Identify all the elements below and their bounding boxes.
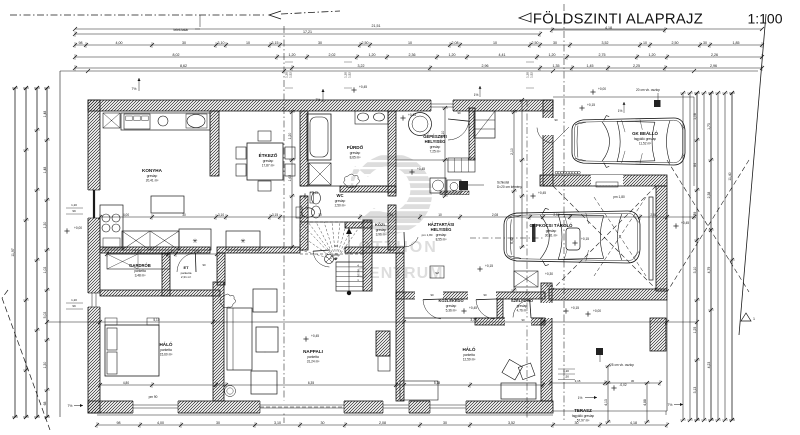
svg-text:FÖLDSZINTI ALAPRAJZ: FÖLDSZINTI ALAPRAJZ (533, 10, 703, 28)
svg-text:1,30: 1,30 (43, 362, 47, 369)
svg-text:15,60 m²: 15,60 m² (160, 353, 173, 357)
svg-text:GARDRÓB: GARDRÓB (129, 263, 151, 268)
svg-text:2,50: 2,50 (553, 213, 559, 217)
svg-text:1%: 1% (474, 93, 479, 97)
svg-text:98: 98 (117, 421, 121, 425)
svg-text:KÖZLEKEDŐ: KÖZLEKEDŐ (438, 298, 463, 303)
svg-text:FÜRDŐ: FÜRDŐ (347, 144, 364, 150)
svg-text:✳: ✳ (192, 238, 197, 245)
svg-text:7%: 7% (316, 98, 321, 102)
svg-text:SZÉLFOGÓ: SZÉLFOGÓ (511, 298, 533, 303)
svg-text:-0,02: -0,02 (619, 383, 626, 387)
svg-text:3,10: 3,10 (693, 267, 697, 274)
svg-text:3,22: 3,22 (358, 64, 365, 68)
svg-text:1,50: 1,50 (193, 250, 199, 254)
svg-text:2,10: 2,10 (441, 131, 445, 138)
svg-text:99: 99 (72, 209, 76, 213)
svg-text:4,76 m²: 4,76 m² (517, 309, 528, 313)
svg-text:2,02: 2,02 (329, 53, 336, 57)
svg-text:ET: ET (183, 265, 189, 270)
svg-text:21,51: 21,51 (372, 24, 381, 28)
svg-text:✳: ✳ (240, 238, 245, 245)
svg-text:2,08: 2,08 (492, 213, 498, 217)
svg-text:1,85: 1,85 (733, 41, 740, 45)
svg-text:+0,45: +0,45 (538, 191, 546, 195)
svg-text:4,18: 4,18 (605, 26, 612, 30)
svg-text:fagyálló greslap: fagyálló greslap (572, 414, 595, 418)
svg-text:greslap: greslap (263, 159, 274, 163)
svg-text:2,31 m²: 2,31 m² (181, 275, 191, 279)
svg-text:25 cm vb. oszlop: 25 cm vb. oszlop (610, 363, 634, 367)
svg-text:10: 10 (438, 213, 442, 217)
svg-text:1,20: 1,20 (649, 53, 656, 57)
svg-text:parketta: parketta (463, 353, 475, 357)
svg-text:pm 1,80: pm 1,80 (613, 195, 625, 199)
svg-text:KONYHA: KONYHA (142, 168, 163, 173)
svg-text:greslap: greslap (350, 151, 361, 155)
svg-text:3,15: 3,15 (272, 213, 278, 217)
svg-text:4,41: 4,41 (499, 53, 506, 57)
svg-text:1,20: 1,20 (289, 53, 296, 57)
svg-text:2,50: 2,50 (650, 213, 656, 217)
svg-text:5,02: 5,02 (43, 312, 47, 319)
svg-text:1,45: 1,45 (587, 64, 594, 68)
svg-text:30: 30 (321, 421, 325, 425)
svg-text:30: 30 (182, 213, 186, 217)
svg-text:2,10: 2,10 (510, 148, 514, 155)
svg-text:2,08: 2,08 (452, 41, 459, 45)
svg-text:greslap: greslap (546, 229, 557, 233)
svg-text:1,35: 1,35 (553, 64, 560, 68)
svg-text:4,13: 4,13 (604, 399, 608, 406)
svg-text:pm 1,80: pm 1,80 (422, 233, 433, 237)
svg-text:4,00: 4,00 (157, 421, 164, 425)
svg-text:1,20: 1,20 (71, 298, 77, 302)
svg-text:1,25: 1,25 (693, 327, 697, 334)
svg-text:3,10: 3,10 (274, 421, 281, 425)
svg-text:4,79: 4,79 (707, 267, 711, 274)
svg-text:4,80: 4,80 (123, 381, 129, 385)
svg-text:6,35: 6,35 (308, 381, 314, 385)
svg-text:7%: 7% (668, 403, 673, 407)
svg-text:30: 30 (443, 421, 447, 425)
svg-text:8,55 m²: 8,55 m² (436, 238, 447, 242)
svg-text:20 cm vb. oszlop: 20 cm vb. oszlop (636, 88, 660, 92)
svg-text:HÁLÓ: HÁLÓ (462, 345, 475, 352)
svg-text:3,48 m²: 3,48 m² (135, 274, 146, 278)
svg-text:4,18: 4,18 (630, 421, 637, 425)
svg-text:20,41 m²: 20,41 m² (146, 179, 159, 183)
svg-text:+0,45: +0,45 (359, 85, 367, 89)
svg-text:+0,45: +0,45 (545, 284, 553, 288)
svg-text:2,08: 2,08 (379, 421, 386, 425)
svg-text:30: 30 (182, 41, 186, 45)
svg-text:+0,00: +0,00 (593, 309, 601, 313)
svg-text:3,10: 3,10 (218, 41, 225, 45)
svg-text:2,50: 2,50 (672, 41, 679, 45)
svg-text:+0,45: +0,45 (417, 167, 425, 171)
svg-text:30: 30 (318, 213, 322, 217)
svg-text:pm 90: pm 90 (149, 395, 158, 399)
svg-text:3,10: 3,10 (218, 213, 224, 217)
svg-text:3,15: 3,15 (272, 41, 279, 45)
svg-text:TERASZ: TERASZ (574, 408, 592, 413)
svg-text:+0,45: +0,45 (311, 334, 319, 338)
svg-text:2,36: 2,36 (409, 53, 416, 57)
svg-text:12,59 m²: 12,59 m² (463, 358, 476, 362)
svg-text:90: 90 (334, 244, 338, 248)
svg-text:HÁLÓ: HÁLÓ (159, 340, 172, 347)
svg-text:4,23: 4,23 (707, 362, 711, 369)
svg-text:KÖZL.: KÖZL. (375, 222, 387, 227)
svg-text:1,20: 1,20 (369, 53, 376, 57)
svg-text:2,25: 2,25 (633, 64, 640, 68)
svg-text:SZ: SZ (435, 271, 439, 275)
svg-text:greslap: greslap (436, 233, 447, 237)
svg-text:2,50: 2,50 (532, 41, 539, 45)
svg-text:2,40: 2,40 (134, 250, 140, 254)
svg-text:4,00: 4,00 (123, 213, 129, 217)
svg-text:1,62: 1,62 (288, 175, 292, 182)
svg-text:90: 90 (483, 293, 487, 297)
svg-text:1,48: 1,48 (43, 167, 47, 174)
svg-text:parketta: parketta (134, 269, 146, 273)
svg-text:2,50 m²: 2,50 m² (335, 204, 346, 208)
svg-text:1,48: 1,48 (43, 111, 47, 118)
svg-text:10: 10 (408, 41, 412, 45)
svg-text:GÉPKOCSI TÁROLÓ: GÉPKOCSI TÁROLÓ (530, 223, 574, 228)
svg-text:1,02: 1,02 (43, 267, 47, 274)
svg-text:1,20: 1,20 (449, 53, 456, 57)
svg-text:+0,15: +0,15 (571, 306, 579, 310)
svg-text:57,97 m²: 57,97 m² (577, 419, 590, 423)
svg-text:parketta: parketta (307, 355, 319, 359)
svg-text:98: 98 (79, 41, 83, 45)
svg-text:11,40: 11,40 (728, 172, 732, 180)
svg-text:greslap: greslap (335, 199, 346, 203)
svg-text:30: 30 (703, 41, 707, 45)
svg-text:1,20: 1,20 (71, 203, 77, 207)
svg-text:+0,00: +0,00 (74, 226, 82, 230)
svg-text:3,52: 3,52 (508, 421, 515, 425)
svg-text:10: 10 (246, 41, 250, 45)
svg-text:30: 30 (631, 379, 635, 383)
svg-text:30,81 m²: 30,81 m² (545, 234, 558, 238)
svg-text:90: 90 (202, 263, 206, 267)
svg-text:7%: 7% (132, 87, 137, 91)
svg-text:99: 99 (72, 304, 76, 308)
svg-text:90: 90 (430, 293, 434, 297)
svg-text:NAPPALI: NAPPALI (303, 349, 323, 354)
svg-text:1%: 1% (578, 396, 583, 400)
svg-text:7,25 m²: 7,25 m² (430, 150, 441, 154)
svg-text:greslap: greslap (430, 145, 441, 149)
svg-text:2,50: 2,50 (387, 213, 393, 217)
svg-text:30: 30 (318, 41, 322, 45)
svg-text:2,96: 2,96 (482, 64, 489, 68)
svg-text:telekhatár: telekhatár (174, 28, 190, 32)
svg-text:greslap: greslap (147, 174, 158, 178)
svg-text:+0,15: +0,15 (408, 113, 416, 117)
svg-text:HELYISÉG: HELYISÉG (425, 139, 446, 144)
svg-text:1,52: 1,52 (348, 72, 352, 78)
svg-text:3,15: 3,15 (575, 379, 581, 383)
svg-text:+0,15: +0,15 (485, 264, 493, 268)
svg-text:Schiedel: Schiedel (497, 181, 510, 185)
svg-text:parketta: parketta (160, 348, 172, 352)
svg-text:90: 90 (554, 118, 558, 122)
svg-text:+0,45: +0,45 (310, 191, 318, 195)
svg-text:11,97: 11,97 (11, 248, 15, 256)
svg-text:+0,00: +0,00 (598, 87, 606, 91)
svg-text:68: 68 (43, 402, 47, 406)
svg-text:1,52: 1,52 (289, 72, 293, 78)
svg-text:3,13: 3,13 (693, 387, 697, 394)
svg-text:1,20: 1,20 (549, 53, 556, 57)
svg-text:11,52 m²: 11,52 m² (639, 142, 651, 146)
svg-text:1,73: 1,73 (707, 123, 711, 130)
svg-text:17,21: 17,21 (303, 30, 312, 34)
svg-text:D=20 cm kémény: D=20 cm kémény (497, 185, 522, 189)
svg-text:4,88: 4,88 (643, 399, 647, 406)
svg-text:+0,30: +0,30 (545, 272, 553, 276)
svg-text:1,30: 1,30 (43, 222, 47, 229)
svg-text:1,20: 1,20 (288, 133, 292, 140)
svg-text:5,10: 5,10 (153, 318, 159, 322)
svg-text:HELYISÉG: HELYISÉG (431, 227, 452, 232)
svg-text:3,96 m²: 3,96 m² (376, 233, 387, 237)
svg-text:5,36 m²: 5,36 m² (446, 309, 457, 313)
svg-text:2,50: 2,50 (362, 41, 369, 45)
svg-text:17,87 m²: 17,87 m² (262, 164, 275, 168)
svg-text:90: 90 (521, 318, 525, 322)
svg-text:ÉTKEZŐ: ÉTKEZŐ (259, 151, 278, 158)
svg-text:1: 1 (753, 317, 755, 321)
svg-text:4,00: 4,00 (116, 41, 123, 45)
svg-text:31,24 m²: 31,24 m² (307, 360, 320, 364)
svg-text:10: 10 (493, 41, 497, 45)
svg-text:1,50: 1,50 (563, 375, 569, 379)
svg-text:84: 84 (693, 163, 697, 167)
svg-text:2,38: 2,38 (707, 192, 711, 199)
svg-text:1%: 1% (618, 109, 623, 113)
svg-text:2,96: 2,96 (710, 64, 717, 68)
svg-text:greslap: greslap (376, 228, 387, 232)
svg-text:WC: WC (337, 193, 344, 198)
svg-text:1,20: 1,20 (563, 369, 569, 373)
svg-text:3,52: 3,52 (602, 41, 609, 45)
svg-text:+0,15: +0,15 (581, 237, 589, 241)
svg-text:90: 90 (457, 111, 461, 115)
svg-text:fagyálló greslap: fagyálló greslap (634, 137, 657, 141)
svg-text:40: 40 (170, 250, 174, 254)
svg-text:8,02: 8,02 (173, 53, 180, 57)
svg-text:8,65 m²: 8,65 m² (350, 156, 361, 160)
svg-text:7%: 7% (68, 404, 73, 408)
svg-text:GK BEÁLLÓ: GK BEÁLLÓ (632, 131, 658, 136)
svg-text:+0,45: +0,45 (681, 221, 689, 225)
svg-text:30: 30 (553, 41, 557, 45)
svg-text:5,18: 5,18 (434, 381, 440, 385)
svg-text:30: 30 (216, 421, 220, 425)
svg-text:2,75: 2,75 (599, 53, 606, 57)
svg-text:3,75: 3,75 (470, 318, 476, 322)
svg-text:10: 10 (643, 41, 647, 45)
svg-text:+0,45: +0,45 (469, 306, 477, 310)
svg-text:greslap: greslap (517, 304, 528, 308)
svg-text:8,62: 8,62 (180, 64, 187, 68)
svg-text:1,52: 1,52 (530, 72, 534, 78)
svg-text:2,26: 2,26 (711, 53, 718, 57)
svg-text:greslap: greslap (446, 304, 457, 308)
svg-text:1,08: 1,08 (693, 113, 697, 120)
svg-text:+0,15: +0,15 (587, 103, 595, 107)
